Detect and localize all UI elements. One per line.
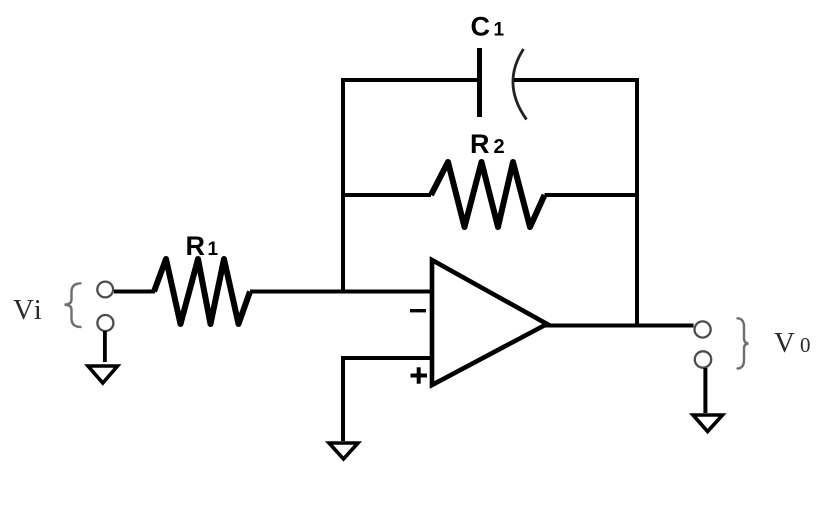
- capacitor C1 left plate: [477, 48, 482, 117]
- input terminal bottom: [97, 315, 113, 331]
- input terminal top: [97, 282, 113, 298]
- op-amp U1: [432, 260, 547, 385]
- svg-text:R: R: [470, 129, 490, 159]
- svg-text:V: V: [774, 327, 795, 359]
- label C1: [471, 12, 505, 42]
- svg-text:2: 2: [494, 136, 505, 158]
- plus sign (non-inverting input): [411, 367, 428, 383]
- wire output bottom terminal to ground: [703, 368, 707, 413]
- wire C1 to top right: [514, 78, 639, 82]
- wire left vertical to R2: [343, 193, 431, 197]
- svg-text:1: 1: [494, 20, 505, 41]
- wire op-amp output: [545, 324, 694, 328]
- label R2: [470, 129, 505, 159]
- svg-text:R: R: [186, 231, 206, 261]
- label R1: [186, 231, 219, 261]
- wire R1 to inverting input: [250, 290, 432, 294]
- capacitor C1 right curved plate: [513, 49, 527, 120]
- svg-text:1: 1: [208, 239, 219, 260]
- wire input terminal to R1: [114, 290, 155, 294]
- wire input bottom terminal to ground: [103, 331, 107, 362]
- ground (input): [88, 366, 118, 383]
- output terminal top: [695, 321, 711, 337]
- minus sign (inverting input): [410, 309, 426, 312]
- resistor R1: [154, 259, 250, 324]
- ground (op-amp non-inverting): [329, 443, 358, 459]
- wire non-inverting input: [343, 358, 432, 441]
- output brace: [738, 318, 749, 368]
- label V0: [774, 327, 811, 359]
- wire feedback right vertical: [635, 78, 639, 327]
- wire top left to C1: [341, 78, 480, 82]
- input brace: [65, 283, 81, 327]
- svg-text:Vi: Vi: [13, 294, 43, 326]
- output terminal bottom: [695, 351, 711, 367]
- ground (output): [693, 415, 723, 432]
- svg-text:0: 0: [800, 333, 811, 357]
- wire feedback left vertical: [341, 78, 345, 292]
- svg-text:C: C: [471, 12, 491, 42]
- wire R2 to right vertical: [545, 193, 638, 197]
- resistor R2: [431, 162, 545, 227]
